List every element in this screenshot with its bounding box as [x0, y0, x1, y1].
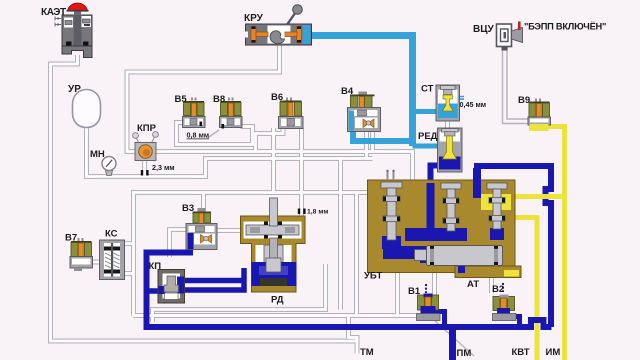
svg-text:0,8 мм: 0,8 мм [187, 131, 210, 140]
valve RED pressure reducing valve [438, 128, 463, 172]
wire VCU to B9 electrical [503, 47, 530, 124]
wire AT to B2 feed [489, 272, 494, 293]
wire B6 drain [271, 128, 276, 193]
wire PM drop [449, 327, 456, 360]
wire B6 left port branch [256, 128, 284, 152]
wire yellow AT bottom stub [504, 270, 519, 277]
wire RED bottom to UBT dark blue [431, 166, 442, 186]
svg-text:КПР: КПР [137, 123, 157, 134]
wire B6 right port to RD top restrictor [299, 128, 304, 216]
svg-text:УР: УР [68, 84, 81, 95]
wire RD right frame drain [153, 264, 326, 322]
svg-text:РД: РД [271, 295, 284, 306]
svg-text:В3: В3 [182, 203, 194, 214]
svg-text:КАЭТ: КАЭТ [41, 7, 66, 18]
wire B3 to KP to main dark blue line [147, 240, 552, 327]
wire B3 pilot stub [201, 193, 206, 212]
svg-text:КП: КП [149, 261, 162, 272]
spool 3 of UBT [487, 183, 507, 229]
wire yellow IM line from B9 [547, 127, 565, 360]
svg-text:В8: В8 [213, 94, 225, 105]
wire yellow spool3 to IM [505, 194, 565, 199]
svg-text:В7: В7 [65, 233, 77, 244]
valve B6 solenoid [279, 98, 304, 129]
svg-text:2,3 мм: 2,3 мм [152, 163, 175, 172]
svg-text:0,45 мм: 0,45 мм [460, 100, 487, 109]
svg-text:1,8 мм: 1,8 мм [307, 209, 328, 216]
valve KRU manual control valve [245, 5, 312, 45]
svg-text:КВТ: КВТ [512, 347, 530, 358]
svg-text:МН: МН [90, 149, 105, 160]
wire B3 left to KP top [170, 230, 188, 258]
wire 0,8mm leader slash [208, 130, 220, 138]
pin B5 drain mark [200, 122, 203, 127]
wire cyan branch to B4 [353, 112, 413, 141]
svg-text:В2: В2 [492, 284, 504, 295]
valve B2 solenoid [493, 283, 517, 321]
accumulator UR [73, 90, 101, 128]
wire B7 to KC stub [91, 260, 100, 265]
wire cyan branch to ST [413, 109, 438, 114]
svg-text:В5: В5 [175, 94, 188, 105]
svg-text:РЕД: РЕД [418, 131, 438, 142]
wire B2 outlet [504, 317, 520, 328]
wire RED loop dark blue to AT right [477, 166, 551, 327]
wire ST to RED connector [445, 120, 450, 129]
pressure reducer KPR [133, 132, 159, 161]
svg-text:УБТ: УБТ [364, 271, 383, 282]
svg-text:В1: В1 [408, 286, 421, 297]
gauge MN [102, 157, 116, 176]
svg-text:ПМ: ПМ [457, 348, 472, 359]
svg-text:В9: В9 [518, 95, 530, 106]
svg-text:АТ: АТ [467, 279, 479, 290]
valve B5 solenoid [183, 98, 206, 128]
wire riser x356 [354, 193, 359, 316]
valve B4 pilot solenoid valve [348, 92, 381, 132]
valve B9 solenoid [528, 99, 551, 132]
wire drain rail y315 to B1 [134, 313, 418, 318]
valve KAET emergency button valve [55, 3, 92, 57]
wire cyan supply drop [409, 32, 416, 146]
restrictor 1,8mm marks [298, 209, 300, 215]
indicator VCU buzzer [497, 24, 523, 51]
restrictor 0,45mm mark cyan [459, 97, 464, 100]
svg-text:СТ: СТ [421, 84, 434, 95]
svg-text:КС: КС [105, 229, 118, 240]
wire KRU bottom to KPR left [127, 44, 280, 152]
node B9 yellow outlet plate [529, 123, 548, 131]
wire KP left tap [147, 288, 160, 294]
wire UBT to B1 feed [432, 267, 437, 295]
white pipe cores [51, 55, 357, 341]
wire yellow KVT line [505, 218, 537, 360]
wire KC bottom port stub [124, 271, 134, 276]
spool 1 of UBT [381, 170, 402, 240]
wire B5-B8 loop [177, 123, 253, 145]
wire B3 right to RD left [217, 228, 241, 233]
valve B3 pilot solenoid valve [186, 208, 217, 250]
wire KPR right to UBT riser [155, 152, 413, 183]
lamp marker I red [518, 22, 521, 31]
spool AT accumulator piston [415, 246, 503, 266]
pin B8 drain mark [222, 124, 225, 129]
valve KP clutch valve [158, 270, 185, 304]
valve B8 solenoid [220, 98, 243, 128]
svg-text:В6: В6 [271, 92, 283, 103]
svg-text:КРУ: КРУ [244, 13, 264, 24]
block UBT gearbox control unit [368, 168, 522, 278]
valve B1 solenoid [417, 284, 441, 321]
wire cyan branch to RED [413, 144, 439, 149]
wire TM drop [349, 316, 358, 354]
wire B1 outlet [432, 312, 445, 328]
wire UBT bottom drain riser [395, 267, 400, 316]
svg-text:"БЭПП ВКЛЮЧЁН": "БЭПП ВКЛЮЧЁН" [524, 22, 606, 32]
wire drain riser x340 [338, 159, 343, 310]
svg-text:ТМ: ТМ [360, 347, 374, 358]
wire B4 drain b [370, 130, 375, 152]
svg-text:ИМ: ИМ [546, 347, 561, 358]
restrictor 2,3mm marks [141, 170, 143, 176]
spool 2 of UBT [441, 183, 461, 231]
valve RD pressure regulator [241, 198, 306, 292]
svg-text:ВЦУ: ВЦУ [473, 24, 495, 35]
svg-text:В4: В4 [341, 86, 354, 97]
valve B7 solenoid [70, 238, 93, 271]
wire frame rail y192 [134, 193, 368, 316]
wire KP to RD upper [184, 278, 244, 284]
valve ST jet pump [436, 85, 460, 121]
wire UR stem to drain rail [87, 127, 373, 177]
wire KP to RD lower [184, 268, 244, 290]
wire PM leader diagonal [435, 321, 474, 356]
wire B4 drain a [364, 130, 369, 159]
wire KAET to TM bottom run [51, 55, 357, 341]
wire KC top port stub [124, 241, 134, 246]
valve KC lockup valve [100, 240, 125, 280]
wire KPR bottom restrictor branch [142, 160, 147, 177]
wire cyan KRU supply top [310, 32, 413, 39]
